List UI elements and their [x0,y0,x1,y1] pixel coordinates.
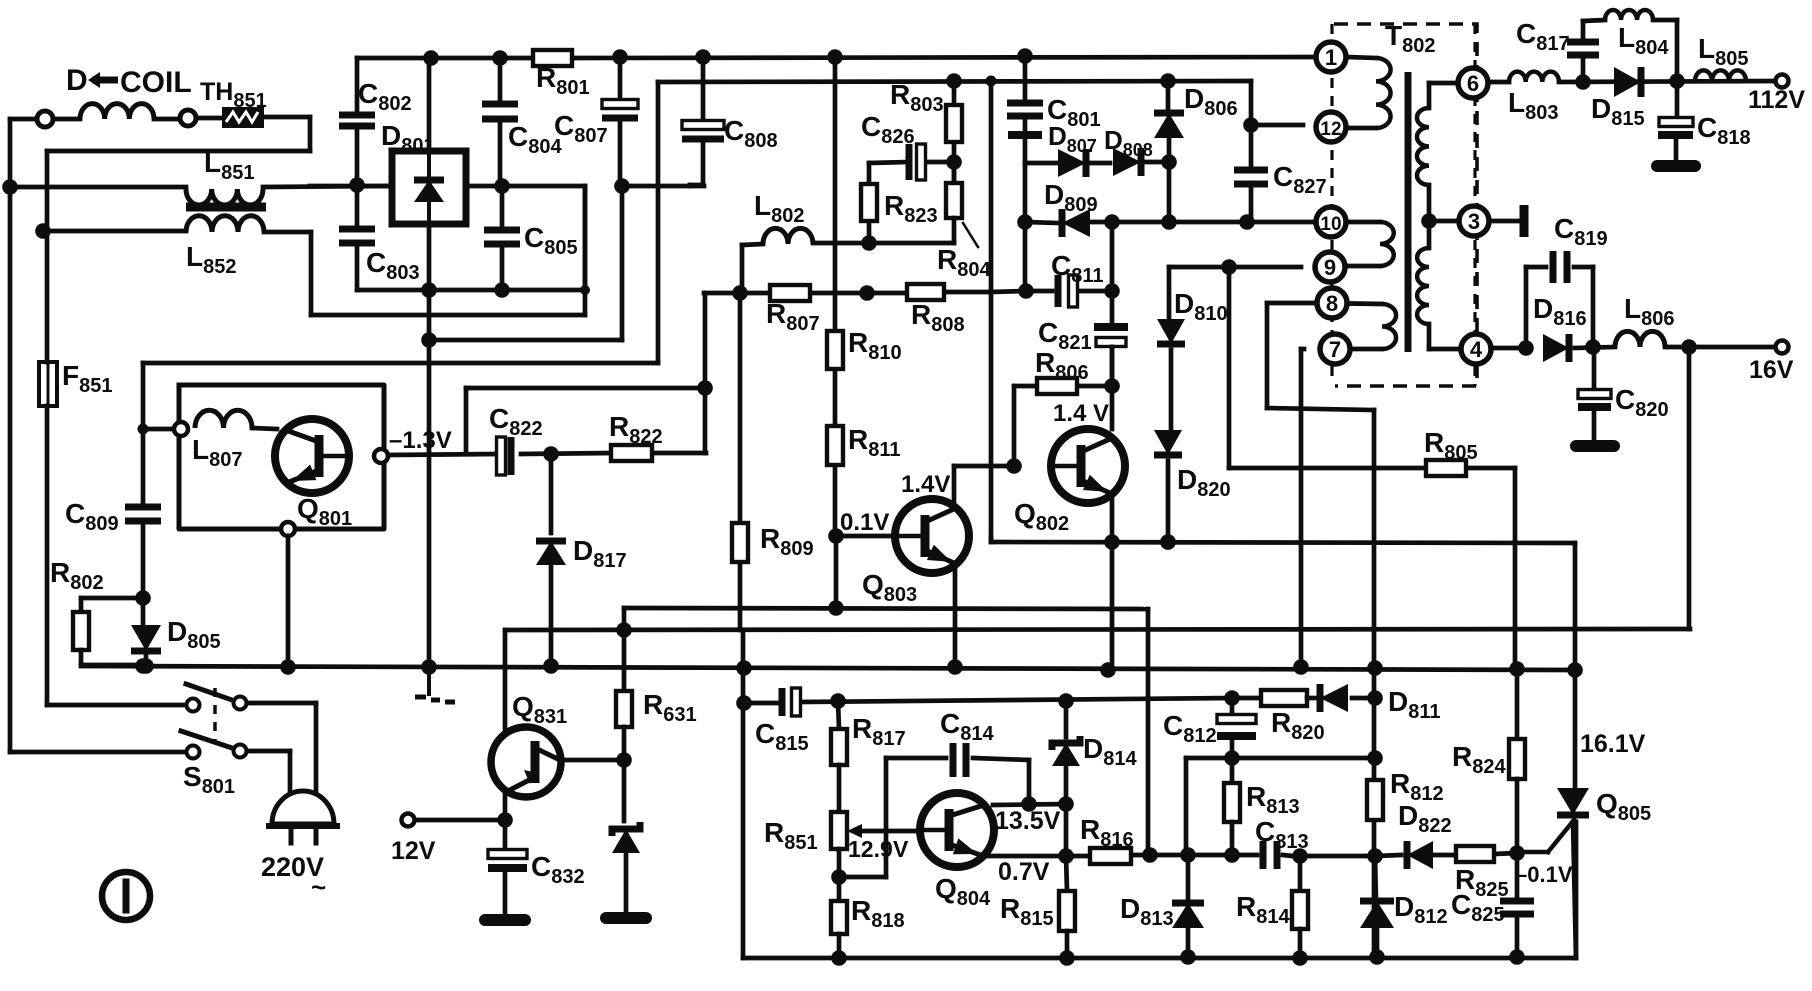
junction (16V node) [1681,339,1697,355]
label R825 [1455,864,1509,901]
label D816 [1533,293,1587,330]
wire: Q803 emitter [953,564,958,667]
zener diode (Q831 ref) [612,760,640,912]
inductor L805 [1695,70,1746,81]
wire: Q801 bias box [179,385,384,529]
pin 9 [1315,252,1345,282]
label 16.1V [1580,730,1646,758]
wire: Q801 emitter down [286,536,291,667]
svg-text:D: D [66,64,88,97]
wire: top rail [357,57,1316,58]
junction (C815 line/x744) [736,695,752,711]
svg-text:16V: 16V [1749,356,1794,384]
resistor R813 [1224,758,1240,855]
label 13.5V [995,807,1061,835]
svg-text:1.4V: 1.4V [901,471,950,498]
junction (R806/x1112) [1104,378,1120,394]
junction dots on DC- line [494,178,630,194]
junction (D815/L804/C818) [1669,73,1685,89]
wire: y758 line [1186,758,1375,855]
label 1.4V (Q802) [1053,400,1109,427]
transistor Q803 [895,499,969,573]
wire: pin9 line [1169,265,1301,270]
junction (D820 bottom) [1160,534,1176,550]
ground (zener) [606,912,646,924]
capacitor C826 [909,144,926,180]
resistor R814 [1292,856,1308,958]
svg-text:7: 7 [1329,337,1341,362]
label R805 [1424,427,1478,464]
bridge rectifier D801 [392,151,466,224]
label R812 [1390,768,1444,805]
transformer winding 8-7 [1317,303,1396,349]
line-filter core bar [186,203,266,212]
wire: Q831 emitter/12V [412,794,505,820]
label D807 [1048,121,1097,156]
page marker circled 1 [102,872,150,920]
diode D806 [1154,81,1184,222]
capacitor C803 [339,185,429,290]
diode D815 [1614,67,1641,97]
wire: Q802 base line [954,466,1014,505]
resistor R817 [831,701,847,812]
label D806 [1184,83,1238,120]
junction (x991 top) [986,76,997,87]
label D817 [573,535,627,572]
junction dots on top rail [423,48,1033,66]
svg-text:1: 1 [1325,45,1337,70]
label L804 [1618,22,1669,59]
label D801 [381,120,435,157]
svg-text:–0.1V: –0.1V [1515,862,1573,887]
wire: y608 line [624,608,1148,855]
label R815 [1000,893,1054,930]
wire: R807 line y293 [704,291,1026,388]
fuse F851 [39,362,57,406]
capacitor C802 [339,58,375,185]
junction (C805 box right) [580,285,590,295]
resistor R811 [827,426,843,465]
capacitor C807 [602,57,638,186]
label R803 [890,79,944,116]
svg-text:COIL: COIL [120,66,192,99]
label C826 [861,111,915,148]
junction (C805 bottom line) [494,282,510,298]
chassis mark [415,667,455,702]
junction (D808/D806) [1161,154,1177,170]
svg-text:6: 6 [1467,71,1479,96]
label Q805 [1596,788,1651,825]
junction (C809/D805 top) [135,590,151,606]
resistor R816 [1090,848,1131,864]
label 1.4V (Q803) [901,471,950,498]
resistor R808 [907,284,944,300]
wire: AC input top line with D-COIL loop [10,117,310,231]
resistor R824 [1509,669,1525,853]
label C820 [1615,384,1669,421]
resistor R818 [831,901,847,958]
wire: x1025 vertical [1023,163,1028,291]
ground (C820) [1576,440,1614,452]
wire: rail y630 [505,629,1690,731]
label L851 [204,147,254,184]
junction (C811 left) [1018,283,1034,299]
junction dots (collector node) [1021,796,1074,812]
junction dots R816 line [1058,847,1240,864]
junction (C803 line / bridge vertical) [421,282,437,298]
capacitor C820 [1578,347,1611,440]
wire: R851 wiper to base [858,829,920,834]
inductor D-COIL [80,104,154,119]
wire: left column x47 fuse to switch [47,231,186,705]
svg-text:112V: 112V [1748,86,1805,114]
label R806 [1035,347,1089,384]
switch S801 lower pole [181,731,247,759]
resistor R806 [1037,378,1077,394]
label R809 [760,523,814,560]
label R820 [1271,707,1325,744]
wire: D822 line [1375,853,1517,856]
diode D812 [1360,856,1394,957]
label D815 [1591,93,1645,130]
junction (D816 out) [1585,339,1601,355]
transistor Q831 [491,727,561,797]
inductor L852 [186,216,264,232]
label T802 [1385,20,1435,57]
junction (R812 top) [1367,750,1383,766]
junction (R818/bottom rail) [831,950,847,966]
wire: Q803 base [836,534,895,539]
label D805 [167,616,221,653]
wire: pin7 line [1301,349,1304,667]
wire: 16V feedback vertical [1687,347,1692,629]
capacitor C817 [1567,21,1599,82]
junction (x47 / L852) [35,223,51,239]
junction (C812/R813/y758) [1224,750,1240,766]
junction (secondary centre tap) [1421,213,1437,229]
label C821 [1038,317,1092,354]
capacitor C812 [1217,698,1256,758]
svg-text:8: 8 [1326,291,1338,316]
diode D816 [1543,334,1569,362]
capacitor C821 [1094,222,1128,378]
junction (Q803 base/x836) [828,528,844,544]
terminal ring (L807 input) [143,422,188,436]
inductor L803 [1509,72,1559,82]
wire: Q831 collector [561,758,624,763]
label C814 [940,708,994,745]
terminal ring (Q801 base out) [374,449,388,463]
junction (D817/ground rail) [543,658,559,674]
capacitor C822 [497,437,512,475]
label Q802 [1014,498,1069,535]
diode D808 [1086,148,1169,176]
junction (C802/L851/bridge) [349,177,365,193]
wire: bottom rail [743,822,1576,958]
label 12V [391,837,436,865]
capacitor C813 [1263,841,1277,869]
wire: pin10 line y222 [1025,222,1318,223]
wire: R851 bottom node [839,758,886,901]
svg-text:0.7V: 0.7V [998,858,1050,886]
pin 10 [1316,207,1346,237]
label 220V [261,852,326,902]
resistor R807 [770,285,810,301]
label -0.1V [1515,862,1573,887]
label Q831 [512,691,567,728]
label L803 [1508,87,1558,124]
resistor R804 [869,162,962,243]
junction (x836/y608) [828,600,844,616]
capacitor C805 [429,186,585,290]
svg-text:16.1V: 16.1V [1580,730,1646,758]
junction (C811 right) [1104,283,1120,299]
junction (pin9/R805 branch) [1221,259,1237,275]
label C819 [1554,213,1608,250]
label D808 [1104,125,1153,160]
label C809 [65,498,119,535]
junction (collector/R631/zener) [616,752,632,768]
label D-COIL [66,64,192,99]
terminal 16V [1776,341,1789,354]
label R813 [1246,781,1300,818]
resistor R825 [1456,846,1494,862]
label 0.7V [998,858,1050,886]
transformer primary winding 1-12 [1346,57,1391,128]
pin 12 [1316,112,1346,142]
capacitor C809 [125,429,161,598]
label R823 [884,190,938,227]
label C815 [755,718,809,755]
terminal circle (D-coil left) [37,111,53,127]
wire: R805 line [1229,267,1515,669]
pin 7 [1320,334,1350,364]
resistor R803 [946,105,962,142]
inductor L807 [195,410,277,429]
label C801 [1047,94,1101,131]
svg-text:9: 9 [1324,255,1336,280]
capacitor C804 [482,58,518,186]
label C807 [554,110,608,147]
junction dots y542 [1104,534,1176,550]
label D820 [1177,464,1231,501]
label 12.9V [848,836,909,862]
transformer winding 10-9 [1318,222,1394,266]
wire: x991 vertical [989,81,994,542]
resistor R801 [533,50,572,66]
wire: nested return y340 [429,186,622,340]
label R807 [766,298,820,335]
junction (gate node) [1509,845,1525,861]
junction (R851 bottom) [831,869,847,885]
wire: C815 line y701 [744,698,1232,703]
resistor R802 loop [73,598,143,665]
junction (emitter/ground rail) [280,659,296,675]
wire: R823 branch [869,81,954,243]
wire: R816 line [985,855,1375,856]
diode D807 [1025,149,1086,177]
junction dots rail y667 [135,658,1583,678]
junction (D812/bottom rail) [1369,949,1385,965]
junction (D811/x1375) [1367,690,1383,706]
resistor R810 [827,331,843,369]
label C827 [1273,161,1327,198]
mains plug [266,791,340,843]
terminal 12V [402,814,415,827]
junction (emitter/12V/C832) [497,812,513,828]
junction (R814/bottom rail) [1292,950,1308,966]
wire: second rail y82 [658,81,1251,82]
junction (C827 pin12) [1243,117,1259,133]
label R817 [852,713,906,750]
wire: Q804 collector node [993,804,1066,805]
label Q803 [862,569,917,606]
capacitor C808 [682,57,724,186]
wire: 112V line [1489,81,1782,82]
thermistor TH851 [222,107,264,128]
transistor Q804 [920,793,994,867]
label 112V [1748,86,1805,114]
diode D811 [1320,684,1375,712]
junction (base/R806) [1006,458,1022,474]
junction (Q803 emitter/gnd) [947,659,963,675]
pin3 stub bar [1490,205,1524,237]
label C822 [489,403,543,440]
pin 6 [1458,68,1488,98]
label C825 [1451,889,1505,926]
label TH851 [200,78,267,112]
inductor L804 loop [1583,10,1677,81]
resistor R851 (adjustable) [831,812,862,849]
wire: x744 spine [740,293,743,958]
transformer core [1405,72,1412,352]
junction (C812 top) [1224,690,1240,706]
svg-text:10: 10 [1320,214,1341,235]
junction (R803/C826/R804) [946,154,962,170]
wire: y542 line [991,542,1575,670]
junction (R817 top) [830,693,846,709]
transformer T802 dashed box [1332,24,1477,386]
wire: R822 feedback loop y388 [466,388,705,454]
label R810 [848,327,902,364]
resistor R812 [1367,780,1383,820]
label C817 [1516,18,1570,55]
wire: L851 line to bridge [263,186,392,187]
junction (pin7/ground rail) [1293,659,1309,675]
junction (bridge vertical/y340) [421,332,437,348]
transistor Q802 [1051,429,1125,503]
capacitor C819 loop [1526,251,1593,348]
transformer secondary winding [1417,83,1460,349]
pin 8 [1317,288,1347,318]
inductor L802 [742,228,869,293]
junction (D813/bottom rail) [1180,949,1196,965]
zener diode D814 [1052,702,1080,855]
resistor R809 [732,523,748,562]
pin 1 [1316,42,1346,72]
label R822 [609,411,663,448]
capacitor C815 [782,688,801,716]
capacitor C814 loop [886,743,1029,804]
capacitor C811 [1058,275,1078,307]
junction (left rail / L851 line) [2,179,18,195]
junction dots R807 line [732,285,875,301]
label D812 [1394,891,1448,928]
svg-text:4: 4 [1470,337,1483,362]
junction (R631 top) [616,622,632,638]
svg-text:1.4 V: 1.4 V [1053,400,1109,427]
resistor R820 [1232,690,1315,706]
junction (D805/ground rail) [138,658,154,674]
label R811 [848,424,901,461]
diode D809 [1062,209,1090,237]
label R804 [937,223,991,281]
junction (R803 top) [946,73,962,89]
wire: 16V line [1492,347,1782,348]
junction (R814 top) [1292,848,1308,864]
pin 4 [1461,334,1491,364]
label L805 [1698,33,1748,70]
wire: x836 long vertical [835,57,836,608]
capacitor C801 [1007,56,1043,163]
label D813 [1120,893,1174,930]
svg-text:12: 12 [1320,119,1341,140]
label R824 [1452,741,1506,778]
corner x143 top [138,424,149,435]
junction (C822/D817) [543,446,559,462]
resistor R815 [1059,856,1075,958]
wire: base line y454 [388,453,706,455]
diode D805 [131,598,161,665]
junction (D814 top) [1058,693,1074,709]
label C813 [1255,816,1309,853]
label C808 [724,115,778,152]
svg-text:3: 3 [1468,209,1480,234]
diode D810 [1157,267,1185,428]
svg-text:~: ~ [311,872,326,902]
junction (D806 top) [1160,73,1176,89]
wire: nested return y315 [583,186,588,315]
label C811 [1051,250,1104,287]
label Q804 [935,873,991,910]
capacitor C825 [1500,853,1534,957]
resistor R823 [861,184,877,221]
wire: R806 branch [1014,386,1112,466]
resistor R631 [616,630,632,760]
wire: pin12 line [1251,123,1303,128]
switch gang dashed link [213,688,217,744]
diode D817 [536,454,566,666]
inductor L851 [186,189,263,205]
label R816 [1080,814,1134,851]
label L806 [1624,293,1674,330]
label F851 [62,360,112,397]
label R801 [536,62,590,99]
wire: left column x10 to lower switch [10,187,186,752]
capacitor C832 [488,820,527,914]
label S801 [183,761,235,798]
resistor R805 [1426,460,1466,476]
label R808 [911,299,965,336]
wire: line to L851 from left rail [10,185,186,190]
label Q801 [297,493,352,530]
wire: x1112 spine [1110,347,1115,671]
junction (L802/R823) [861,235,877,251]
junction (R815/bottom rail) [1059,950,1075,966]
label C805 [524,222,578,259]
label R814 [1236,891,1290,928]
wire: upper switch to plug [247,703,316,790]
